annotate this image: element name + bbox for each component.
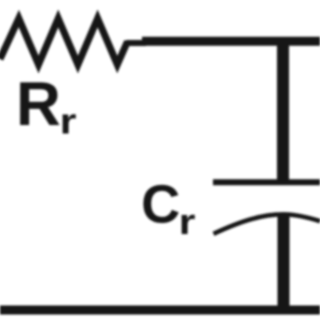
wire bottom horizontal	[0, 306, 320, 315]
resistor R1 zigzag body	[0, 19, 128, 65]
svg-text:R: R	[16, 70, 61, 139]
wire vertical from capacitor bottom plate to bottom wire	[278, 215, 290, 311]
wire vertical from top wire to capacitor top plate	[277, 44, 289, 181]
svg-text:r: r	[179, 202, 196, 242]
svg-text:r: r	[60, 102, 77, 142]
wire stub from resistor	[126, 40, 146, 46]
capacitor C1 top plate	[213, 179, 320, 185]
capacitor C1 bottom curved plate	[214, 214, 320, 233]
svg-text:C: C	[141, 175, 180, 235]
wire top horizontal	[142, 37, 320, 46]
